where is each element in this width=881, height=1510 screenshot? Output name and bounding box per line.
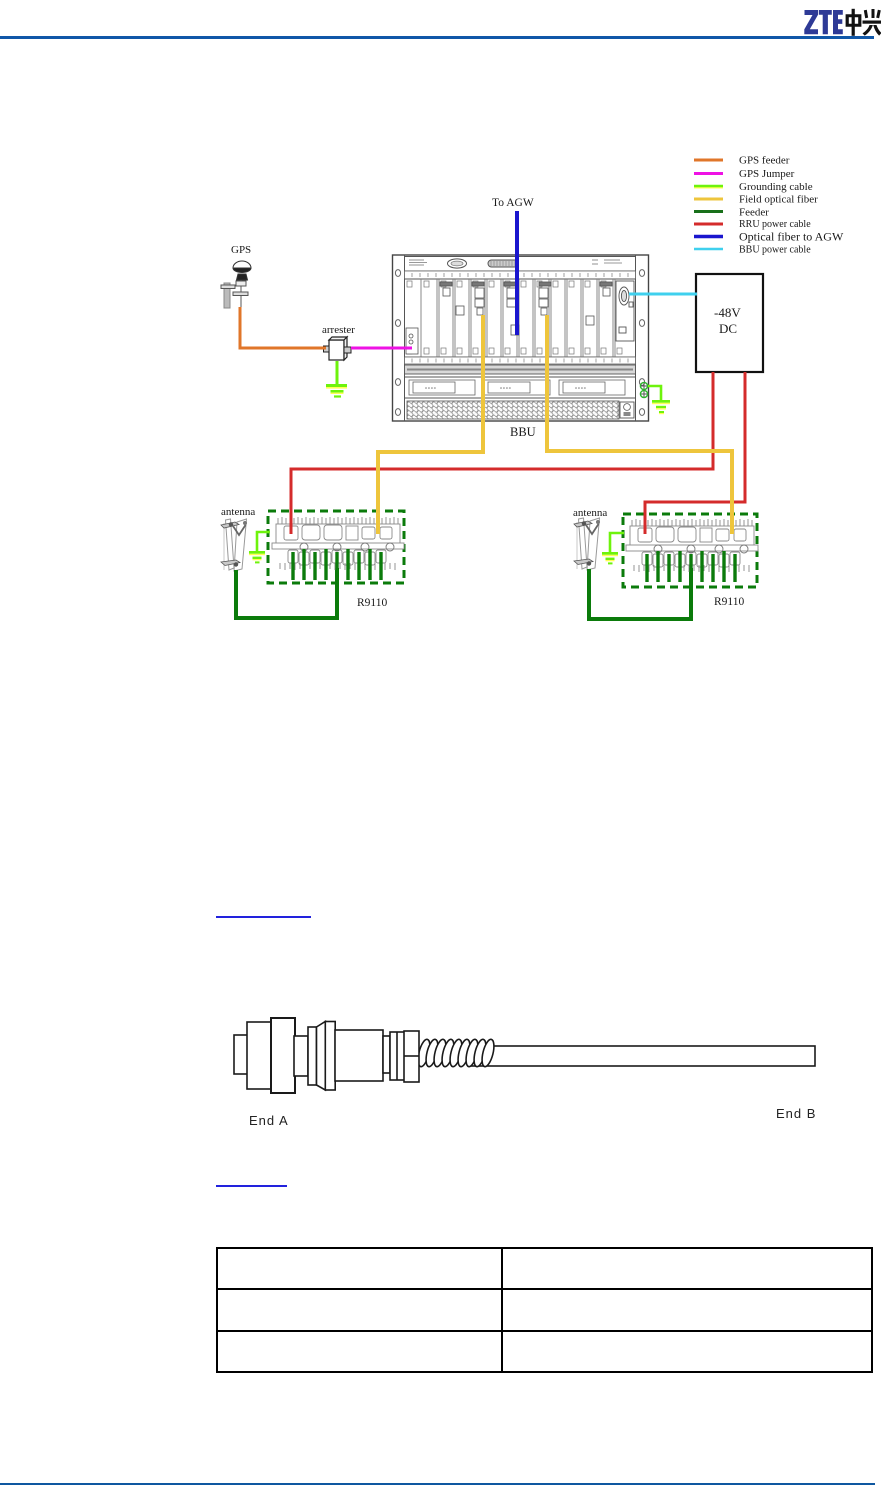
BBU grounding cable (648, 386, 661, 400)
top fins (278, 517, 398, 524)
header rule (0, 36, 874, 39)
feeder antenna-right to RRU-right (589, 568, 691, 619)
connector figure (0, 1000, 881, 1140)
svg-text:R9110: R9110 (357, 597, 387, 609)
taper rings (308, 1027, 317, 1085)
svg-text:GPS: GPS (231, 244, 251, 256)
RRU unit right (626, 519, 758, 582)
body (276, 524, 400, 546)
-48V DC box (696, 274, 763, 372)
field optical fiber (yellow) path A (378, 315, 483, 534)
legend labels (739, 155, 844, 256)
svg-text:Grounding cable: Grounding cable (739, 181, 813, 193)
End B label (776, 1106, 816, 1121)
power card with DB9 (616, 281, 634, 341)
GPS feeder (orange) (240, 307, 326, 348)
End A label (249, 1113, 289, 1128)
svg-text:-48V: -48V (714, 305, 741, 320)
footer rule (0, 1483, 875, 1485)
honeycomb vent (407, 401, 619, 419)
legend Field optical fiber swatch (694, 198, 723, 201)
bottom ports (288, 550, 386, 565)
arrester (324, 337, 352, 360)
field optical fiber (yellow) path B (547, 315, 732, 534)
feeder stubs (293, 549, 381, 580)
main body (335, 1030, 383, 1081)
mid bar (272, 543, 404, 549)
svg-text:GPS feeder: GPS feeder (739, 155, 790, 167)
svg-text:BBU power cable: BBU power cable (739, 245, 811, 256)
legend BBU power cable swatch (694, 248, 723, 251)
legend Optical fiber to AGW swatch (694, 235, 723, 238)
fan tray (405, 377, 636, 398)
legend GPS feeder swatch (694, 159, 723, 162)
hyperlink underline 2 (216, 1185, 287, 1187)
port circles (300, 543, 394, 551)
bottom fins (280, 563, 395, 570)
BBU grounding screws (640, 382, 647, 397)
legend (694, 155, 844, 256)
bottom slot strip (405, 357, 636, 364)
legend Feeder swatch (694, 210, 723, 213)
RRU-right grounding (610, 533, 624, 552)
feeder antenna-left to RRU-left (236, 568, 337, 618)
svg-text:To AGW: To AGW (492, 197, 534, 209)
RRU power cable (red) path A (291, 372, 713, 534)
BBU chassis (393, 255, 649, 421)
BBU ground symbol (652, 400, 670, 414)
slot number strip (405, 271, 636, 279)
flange holes (395, 270, 644, 416)
card latches top/bottom (407, 281, 622, 354)
RRU-left ground symbol (249, 551, 265, 563)
BBU power cable (cyan) (629, 293, 697, 296)
legend GPS Jumper swatch (694, 172, 723, 175)
RRU unit left (272, 517, 404, 580)
arrester ground symbol (326, 384, 347, 398)
svg-text:DC: DC (719, 321, 737, 336)
svg-text:arrester: arrester (322, 324, 355, 336)
R9110 dashed box left (268, 511, 404, 583)
legend Grounding cable swatch (694, 186, 723, 189)
corrugated boot (416, 1038, 496, 1068)
svg-text:Optical fiber to AGW: Optical fiber to AGW (739, 230, 844, 244)
top panel DB connector (448, 259, 467, 268)
connector end A stack (234, 1035, 250, 1074)
svg-text:RRU power cable: RRU power cable (739, 219, 811, 230)
R9110 dashed box right (623, 514, 757, 587)
svg-text:Field optical fiber: Field optical fiber (739, 194, 818, 206)
svg-text:R9110: R9110 (714, 596, 744, 608)
GPS antenna (221, 261, 251, 310)
antenna icon right (574, 518, 600, 570)
hyperlink underline 1 (216, 916, 311, 918)
ZTE logo (0, 0, 881, 45)
RRU-right ground symbol (602, 552, 618, 564)
legend RRU power cable swatch (694, 223, 723, 226)
top panel (405, 257, 636, 272)
top panel wide connector (488, 260, 518, 267)
svg-text:Feeder: Feeder (739, 207, 769, 219)
top connectors (284, 526, 298, 540)
left flange (404, 255, 406, 421)
svg-text:o o o o: o o o o (425, 386, 436, 390)
middle separator band (405, 365, 636, 374)
cabling diagram (0, 0, 881, 660)
svg-text:antenna: antenna (221, 506, 255, 518)
svg-text:GPS Jumper: GPS Jumper (739, 168, 795, 180)
card cage (405, 279, 636, 357)
slot dividers (421, 279, 615, 357)
RRU-left grounding (257, 532, 270, 551)
svg-text:antenna: antenna (573, 507, 607, 519)
right flange (635, 255, 637, 421)
table (216, 1247, 873, 1373)
outer frame (393, 255, 649, 421)
antenna icon left (221, 519, 247, 571)
arrester grounding cable (336, 361, 339, 384)
GPS jumper (magenta) (351, 347, 412, 350)
svg-text:o o o o: o o o o (575, 386, 586, 390)
cable to End B (470, 1046, 815, 1066)
RRU power cable (red) path B (645, 372, 745, 534)
vent side connector (620, 402, 634, 418)
optical fiber to AGW (blue) (515, 211, 519, 335)
card details (406, 282, 612, 354)
svg-text:BBU: BBU (510, 425, 536, 439)
svg-text:o o o o: o o o o (500, 386, 511, 390)
